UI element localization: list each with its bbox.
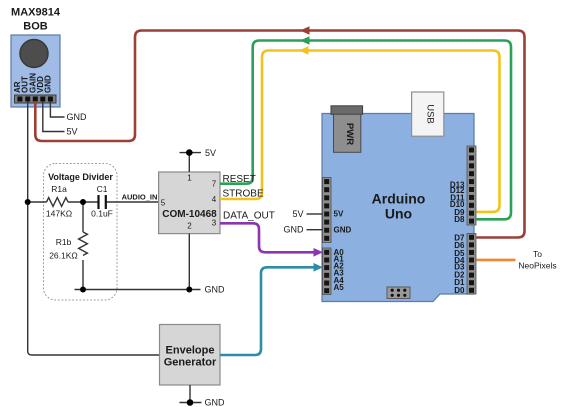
svg-text:R1b: R1b: [56, 237, 72, 247]
svg-text:5V: 5V: [67, 127, 78, 137]
svg-text:1: 1: [187, 173, 192, 182]
svg-text:RESET: RESET: [223, 174, 256, 185]
svg-text:COM-10468: COM-10468: [162, 209, 217, 220]
svg-text:3: 3: [212, 218, 217, 227]
svg-text:GND: GND: [205, 285, 226, 295]
svg-text:0.1uF: 0.1uF: [91, 209, 113, 219]
svg-text:D0: D0: [454, 286, 465, 295]
svg-text:Uno: Uno: [385, 206, 412, 222]
svg-text:4: 4: [212, 195, 217, 204]
svg-text:MAX9814: MAX9814: [11, 7, 61, 19]
svg-text:USB: USB: [425, 104, 436, 124]
svg-text:5V: 5V: [205, 148, 216, 158]
svg-text:AUDIO_IN: AUDIO_IN: [122, 193, 158, 202]
svg-text:Envelope: Envelope: [166, 344, 215, 356]
svg-text:R1a: R1a: [51, 184, 67, 194]
svg-text:GND: GND: [284, 225, 305, 235]
svg-text:GND: GND: [205, 398, 226, 407]
svg-text:A5: A5: [334, 283, 345, 292]
svg-text:GND: GND: [334, 225, 352, 234]
svg-text:147KΩ: 147KΩ: [46, 209, 72, 219]
svg-text:5: 5: [161, 198, 166, 207]
svg-text:Voltage Divider: Voltage Divider: [48, 172, 113, 182]
svg-text:5V: 5V: [292, 209, 303, 219]
svg-text:2: 2: [187, 222, 192, 231]
svg-text:GND: GND: [43, 75, 52, 93]
svg-text:7: 7: [212, 179, 217, 188]
svg-text:C1: C1: [97, 184, 108, 194]
svg-text:BOB: BOB: [23, 20, 48, 32]
svg-text:NeoPixels: NeoPixels: [518, 261, 556, 271]
svg-text:D8: D8: [454, 215, 465, 224]
svg-text:To: To: [533, 249, 542, 259]
svg-text:STROBE: STROBE: [223, 189, 264, 200]
svg-text:Arduino: Arduino: [372, 191, 426, 207]
svg-text:Generator: Generator: [164, 356, 217, 368]
svg-text:PWR: PWR: [344, 123, 355, 145]
svg-text:26.1KΩ: 26.1KΩ: [49, 251, 78, 261]
svg-text:DATA_OUT: DATA_OUT: [223, 211, 275, 222]
svg-text:5V: 5V: [334, 210, 344, 219]
svg-text:GND: GND: [67, 112, 88, 122]
